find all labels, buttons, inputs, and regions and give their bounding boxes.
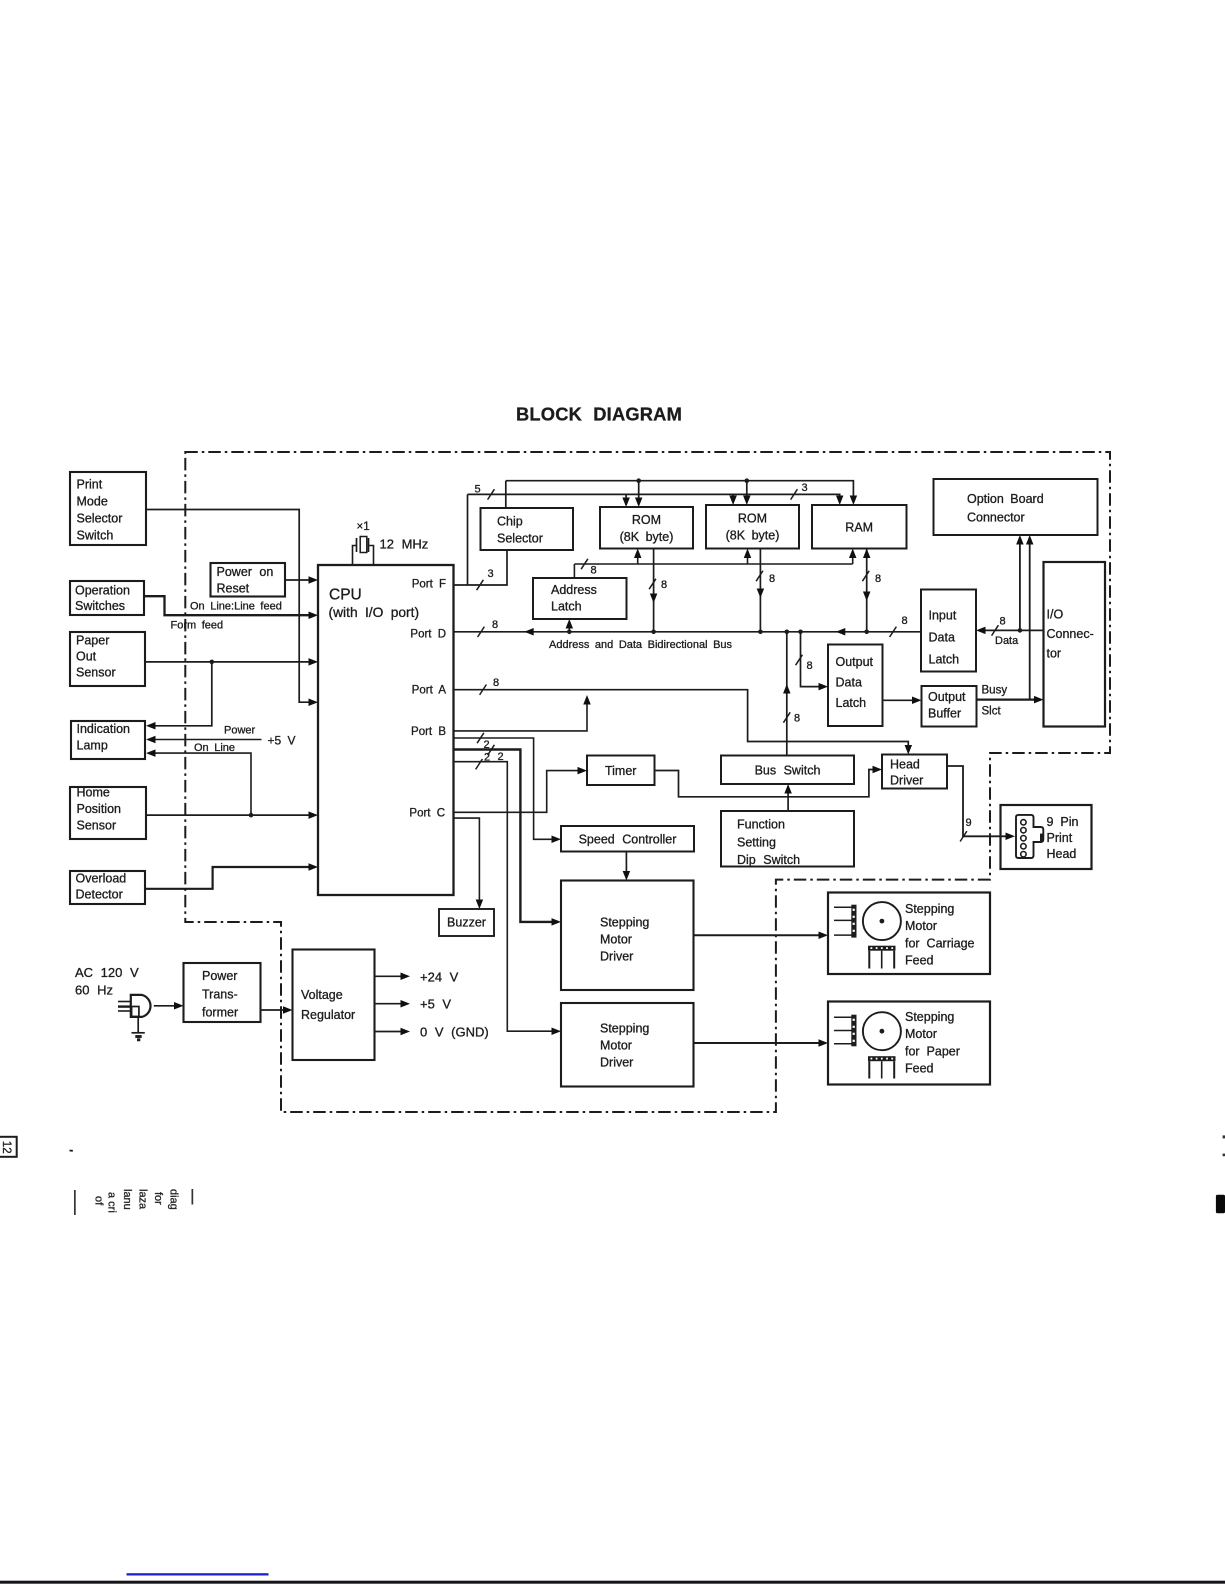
- wire Port B join to Port A bus: [453, 701, 587, 731]
- svg-text:8: 8: [794, 713, 800, 725]
- wire option board riser 2: [1029, 541, 1031, 700]
- wire bus to Address Latch (up arrow): [568, 625, 570, 632]
- board outline dash-dot border: [185, 452, 1110, 1112]
- svg-text:Bus Switch: Bus Switch: [755, 764, 821, 778]
- svg-text:Port A: Port A: [412, 685, 447, 697]
- wire ROM1 data to bus: [653, 549, 655, 632]
- svg-text:On Line:Line feed: On Line:Line feed: [190, 601, 282, 613]
- block Stepping Motor Driver (paper): [561, 1003, 694, 1087]
- svg-text:Home: Home: [77, 786, 110, 800]
- wire +5 V output: [375, 1003, 403, 1005]
- svg-text:Form feed: Form feed: [171, 620, 224, 632]
- svg-text:Detector: Detector: [76, 888, 123, 902]
- block Power on Reset: [211, 563, 286, 597]
- svg-text:tor: tor: [1047, 647, 1062, 661]
- svg-text:Driver: Driver: [890, 773, 923, 787]
- block Power Transformer: [184, 963, 261, 1022]
- svg-text:Power: Power: [224, 725, 256, 737]
- svg-text:for: for: [152, 1192, 164, 1205]
- svg-text:Data: Data: [836, 676, 862, 690]
- svg-text:8: 8: [661, 579, 667, 591]
- wire plug to Power Transformer: [154, 1005, 176, 1007]
- dark scan edge line bottom: [0, 1581, 1225, 1584]
- svg-text:Data: Data: [995, 635, 1019, 647]
- stepping motor for paper feed: [828, 1002, 990, 1085]
- wire rail drop to ROM1 (upper): [638, 481, 640, 501]
- wire address rail up into RAM: [852, 554, 854, 564]
- block RAM: [812, 505, 907, 549]
- block Output Data Latch: [828, 645, 883, 727]
- stepping motor for carriage feed: [828, 893, 990, 975]
- svg-text:Slct: Slct: [982, 706, 1002, 718]
- wire Power Transformer to Voltage Regulator: [261, 1009, 286, 1011]
- wire 0 V (GND) output: [375, 1031, 403, 1033]
- wire ROM2 data to bus: [759, 549, 761, 632]
- svg-text:Address and Data Bidirectional: Address and Data Bidirectional Bus: [549, 639, 733, 651]
- svg-text:8: 8: [875, 573, 881, 585]
- svg-text:Feed: Feed: [905, 1062, 934, 1076]
- wire Chip Selector riser: [505, 481, 507, 508]
- svg-text:for Paper: for Paper: [905, 1044, 960, 1058]
- svg-text:a cri: a cri: [106, 1192, 118, 1213]
- svg-text:Lamp: Lamp: [77, 739, 108, 753]
- svg-text:Busy: Busy: [982, 685, 1008, 697]
- svg-text:Power: Power: [202, 969, 237, 983]
- svg-text:AC 120 V: AC 120 V: [75, 965, 139, 980]
- svg-text:Driver: Driver: [600, 1056, 633, 1070]
- wire Print Mode Selector Switch to CPU: [146, 510, 311, 703]
- svg-text:BLOCK DIAGRAM: BLOCK DIAGRAM: [516, 404, 682, 425]
- 9 pin connector icon: [1016, 815, 1043, 858]
- block Home Position Sensor: [70, 787, 146, 839]
- svg-text:Latch: Latch: [929, 653, 960, 667]
- wire Overload Detector to CPU: [145, 867, 311, 889]
- svg-text:(with I/O port): (with I/O port): [329, 605, 420, 620]
- block Chip Selector: [481, 508, 574, 550]
- svg-text:Reset: Reset: [217, 582, 250, 596]
- svg-text:0 V (GND): 0 V (GND): [420, 1024, 489, 1039]
- svg-text:8: 8: [1000, 616, 1006, 628]
- svg-text:Feed: Feed: [905, 954, 934, 968]
- block Print Mode Selector Switch: [70, 472, 146, 545]
- svg-text:60 Hz: 60 Hz: [75, 983, 113, 998]
- wire Port D address and data bidirectional bus: [453, 631, 921, 633]
- svg-text:+5 V: +5 V: [268, 734, 296, 748]
- block Speed Controller: [561, 826, 694, 852]
- svg-text:Port D: Port D: [410, 629, 446, 641]
- page number 12 (rotated): [0, 1137, 17, 1157]
- black scan blob right edge: [1216, 1195, 1225, 1214]
- stray mark dash: [70, 1150, 73, 1152]
- wire 5-bit select bus (lower rail): [468, 494, 840, 500]
- CPU block (with I/O port): [318, 565, 454, 895]
- svg-text:Connec-: Connec-: [1047, 627, 1094, 641]
- svg-text:Stepping: Stepping: [600, 916, 649, 930]
- svg-text:Output: Output: [836, 655, 874, 669]
- block Buzzer: [439, 909, 494, 936]
- svg-text:+24 V: +24 V: [420, 970, 459, 985]
- svg-text:Head: Head: [1047, 847, 1077, 861]
- wire Timer to Head Driver: [655, 770, 875, 797]
- svg-text:Position: Position: [77, 802, 122, 816]
- svg-text:Indication: Indication: [77, 722, 131, 736]
- svg-text:9 Pin: 9 Pin: [1047, 815, 1079, 829]
- wire Port F riser (5-bit bus): [467, 494, 469, 585]
- wire CPU to Stepping Motor Driver 1 (2-bit): [453, 750, 553, 922]
- svg-text:Mode: Mode: [77, 495, 108, 509]
- wire On Line to Indication Lamp: [153, 753, 251, 815]
- svg-text:Function: Function: [737, 818, 785, 832]
- svg-text:Head: Head: [890, 758, 920, 772]
- block Output Buffer: [922, 686, 977, 727]
- svg-text:12 MHz: 12 MHz: [380, 537, 429, 552]
- wire address rail up into ROM2: [747, 554, 749, 564]
- block Stepping Motor Driver (carriage): [561, 881, 694, 991]
- block I/O Connector: [1044, 562, 1106, 727]
- AC plug symbol: [131, 995, 151, 1017]
- svg-text:Sensor: Sensor: [77, 818, 117, 832]
- block Function Setting Dip Switch: [721, 811, 854, 867]
- wire CPU to Stepping Motor Driver 2 (2-bit): [453, 762, 553, 1031]
- svg-text:8: 8: [591, 565, 597, 577]
- block Paper Out Sensor: [70, 632, 145, 686]
- block Indication Lamp: [71, 721, 145, 759]
- svg-text:Port C: Port C: [409, 808, 445, 820]
- wire Function Setting Dip Switch to Bus Switch: [787, 790, 789, 811]
- block Address Latch: [533, 578, 627, 619]
- svg-text:Switch: Switch: [77, 529, 114, 543]
- wire chip-select rail (upper): [506, 481, 854, 500]
- svg-text:Port F: Port F: [412, 579, 446, 591]
- wire Head Driver to 9 pin print head: [947, 766, 1007, 836]
- blue underline mark bottom: [127, 1573, 269, 1575]
- wire +24 V output: [375, 975, 403, 977]
- svg-text:for Carriage: for Carriage: [905, 936, 975, 950]
- svg-text:Motor: Motor: [600, 933, 632, 947]
- block Operation Switches: [70, 581, 144, 615]
- wire CPU to Speed Controller (2-bit): [453, 738, 553, 839]
- block ROM 1 (8K byte): [600, 507, 693, 549]
- svg-text:Operation: Operation: [75, 583, 130, 597]
- wire CPU to Buzzer: [453, 818, 479, 902]
- svg-text:Motor: Motor: [905, 1027, 937, 1041]
- svg-text:CPU: CPU: [329, 587, 362, 604]
- svg-text:Regulator: Regulator: [301, 1008, 355, 1022]
- svg-text:(8K byte): (8K byte): [726, 529, 780, 543]
- wire rail drop to ROM2 (upper): [746, 481, 748, 499]
- svg-text:(8K byte): (8K byte): [620, 530, 674, 544]
- svg-text:3: 3: [488, 568, 494, 580]
- wire Stepping Motor Driver 2 to paper motor: [694, 1042, 821, 1044]
- svg-text:of: of: [93, 1196, 105, 1206]
- svg-text:Input: Input: [929, 609, 957, 623]
- svg-text:Out: Out: [76, 649, 97, 663]
- svg-text:Print: Print: [1047, 831, 1073, 845]
- svg-text:+5 V: +5 V: [420, 997, 451, 1012]
- block Input Data Latch: [921, 590, 976, 672]
- svg-text:8: 8: [902, 615, 908, 627]
- svg-text:Latch: Latch: [836, 696, 867, 710]
- wire +5 V Power to Indication Lamp: [153, 739, 262, 741]
- block Overload Detector: [70, 871, 145, 904]
- wire Home Position Sensor to CPU: [146, 814, 311, 816]
- block Timer: [587, 756, 655, 786]
- block Voltage Regulator: [293, 950, 375, 1061]
- svg-text:ROM: ROM: [738, 512, 767, 526]
- svg-text:Motor: Motor: [600, 1039, 632, 1053]
- svg-text:Selector: Selector: [497, 532, 543, 546]
- svg-text:8: 8: [807, 660, 813, 672]
- svg-text:Trans-: Trans-: [202, 987, 238, 1001]
- svg-text:Port B: Port B: [411, 726, 446, 738]
- svg-text:former: former: [202, 1006, 238, 1020]
- svg-text:Timer: Timer: [605, 764, 636, 778]
- wire junction to Indication Lamp (paper out): [153, 662, 212, 726]
- svg-text:Latch: Latch: [551, 600, 582, 614]
- block 9 Pin Print Head: [1001, 805, 1092, 869]
- svg-text:Power on: Power on: [217, 565, 274, 579]
- svg-text:Option Board: Option Board: [967, 492, 1044, 506]
- wire RAM data to bus (bidirectional): [866, 549, 868, 632]
- svg-text:12: 12: [0, 1141, 12, 1154]
- wire address rail up into ROM1: [637, 554, 639, 564]
- wire address rail to memories: [574, 563, 852, 565]
- wire option board riser 1: [1019, 541, 1021, 630]
- svg-text:I/O: I/O: [1047, 608, 1064, 622]
- svg-text:Stepping: Stepping: [905, 902, 954, 916]
- wire Power on Reset to CPU: [285, 579, 311, 581]
- svg-text:Overload: Overload: [76, 871, 127, 885]
- svg-text:laza: laza: [137, 1189, 149, 1210]
- svg-text:Stepping: Stepping: [600, 1022, 649, 1036]
- wire Stepping Motor Driver 1 to carriage motor: [694, 934, 821, 936]
- svg-text:8: 8: [493, 677, 499, 689]
- svg-text:ROM: ROM: [632, 513, 661, 527]
- svg-text:Connector: Connector: [967, 511, 1025, 525]
- block Option Board Connector: [934, 479, 1098, 535]
- svg-text:Driver: Driver: [600, 950, 633, 964]
- rotated bleed-through text from facing page: [74, 1190, 76, 1215]
- wire Output Data Latch to Output Buffer: [883, 699, 915, 701]
- svg-text:diag: diag: [168, 1189, 180, 1210]
- svg-text:Motor: Motor: [905, 919, 937, 933]
- svg-text:Switches: Switches: [75, 599, 125, 613]
- wire Bus Switch to bus (8-bit): [786, 632, 788, 756]
- svg-text:9: 9: [966, 817, 972, 829]
- svg-text:Print: Print: [77, 478, 103, 492]
- wire Speed Controller to Stepping Motor Driver 1: [625, 852, 627, 875]
- wire Port C to Timer: [453, 771, 579, 813]
- svg-text:lanu: lanu: [121, 1189, 133, 1210]
- svg-text:Paper: Paper: [76, 633, 109, 647]
- svg-text:Address: Address: [551, 583, 597, 597]
- svg-text:Selector: Selector: [77, 512, 123, 526]
- block Bus Switch: [721, 756, 854, 785]
- svg-text:Buzzer: Buzzer: [447, 916, 486, 930]
- svg-text:RAM: RAM: [845, 521, 873, 535]
- svg-text:Stepping: Stepping: [905, 1010, 954, 1024]
- svg-text:Setting: Setting: [737, 835, 776, 849]
- svg-text:Data: Data: [929, 631, 955, 645]
- block ROM 2 (8K byte): [706, 505, 799, 549]
- svg-text:Speed Controller: Speed Controller: [579, 833, 677, 847]
- wire bus to Output Data Latch: [801, 632, 821, 687]
- svg-text:Voltage: Voltage: [301, 988, 343, 1002]
- wire Operation Switches to CPU (On Line:Line feed / Form feed): [144, 596, 311, 615]
- ground symbol: [137, 1017, 139, 1033]
- wire Port F to Chip Selector: [453, 550, 507, 585]
- wire Port A to Head Driver: [453, 690, 908, 749]
- tiny scan specks right edge: [1223, 1135, 1225, 1138]
- svg-text:Chip: Chip: [497, 515, 523, 529]
- svg-text:Dip Switch: Dip Switch: [737, 853, 800, 867]
- svg-text:8: 8: [769, 573, 775, 585]
- wire Output Buffer to I/O Connector (Busy/Slct): [977, 698, 1037, 700]
- svg-text:Sensor: Sensor: [76, 666, 116, 680]
- crystal X1 12 MHz: [353, 546, 357, 566]
- wire Paper Out Sensor to CPU: [145, 661, 311, 663]
- svg-text:8: 8: [492, 619, 498, 631]
- wire I/O Connector data to Input Data Latch: [984, 629, 1044, 631]
- svg-text:Buffer: Buffer: [928, 707, 961, 721]
- svg-text:×1: ×1: [357, 521, 370, 533]
- svg-text:On Line: On Line: [194, 742, 235, 754]
- block Head Driver: [882, 755, 947, 789]
- svg-text:Output: Output: [928, 690, 966, 704]
- wire rail drop to ROM1 (lower): [625, 494, 627, 501]
- wire Address Latch output riser: [573, 564, 575, 578]
- svg-text:3: 3: [802, 482, 808, 494]
- wire rail drop to ROM2 (lower): [732, 494, 734, 499]
